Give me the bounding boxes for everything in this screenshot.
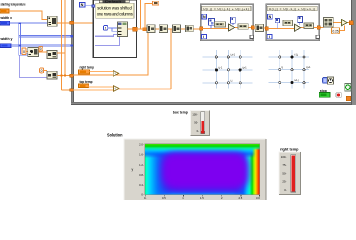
wires inside loop2 bbox=[268, 27, 317, 28]
wire: case node out bbox=[127, 28, 146, 30]
intensity graph panel bbox=[124, 139, 266, 200]
node: index array (loop1) bbox=[209, 19, 215, 26]
wire: right temp to triangle bbox=[90, 71, 114, 73]
svg-text:i,j-1: i,j-1 bbox=[218, 66, 223, 69]
svg-text:N: N bbox=[269, 15, 272, 19]
wire: chain to for loop 1 bbox=[137, 28, 201, 30]
svg-text:i+1,j: i+1,j bbox=[294, 79, 299, 82]
case selector tunnel bbox=[92, 5, 95, 8]
node: Initialize Array 2 (node2) bbox=[47, 51, 57, 59]
constant (loop2) bbox=[275, 18, 279, 22]
control terminal: width y (I32) bbox=[0, 44, 11, 48]
svg-text:3.0: 3.0 bbox=[256, 196, 260, 200]
svg-text:100-: 100- bbox=[281, 155, 287, 159]
node: multiply triangle bbox=[342, 20, 348, 26]
node: add (loop1) bbox=[229, 24, 235, 31]
svg-text:1.2-: 1.2- bbox=[139, 163, 144, 167]
while loop border bbox=[71, 0, 356, 105]
node between loops bbox=[255, 24, 263, 31]
svg-text:0.5: 0.5 bbox=[162, 196, 166, 200]
control terminal: stop (boolean) bbox=[319, 92, 330, 97]
node: time delay (blue icon) bbox=[323, 78, 328, 84]
tunnel: init array out on loop border bbox=[70, 21, 74, 24]
wire: tunnel line under top temp bbox=[73, 89, 113, 91]
svg-text:Default: Default bbox=[105, 0, 121, 4]
for loop 2 bbox=[266, 4, 319, 40]
svg-text:1.5: 1.5 bbox=[200, 196, 204, 200]
wire: N to case selector bbox=[85, 5, 92, 7]
blue wires inside case bbox=[108, 28, 118, 31]
loop condition terminal bbox=[345, 83, 351, 91]
junction: node3 wire bbox=[61, 75, 63, 77]
node: coercion triangle 1 bbox=[113, 71, 119, 77]
svg-text:U(i,j) = U(i-1,j) + U(i+1,j): U(i,j) = U(i-1,j) + U(i+1,j) bbox=[269, 7, 315, 11]
node: index array 2 (loop1) bbox=[231, 17, 236, 23]
control terminal: top temp bbox=[79, 84, 89, 88]
svg-text:0-: 0- bbox=[144, 196, 146, 200]
tunnel: bottom right orange bbox=[346, 96, 351, 101]
svg-text:50-: 50- bbox=[194, 121, 198, 125]
node chain n3 bbox=[173, 25, 181, 33]
svg-text:Solution: Solution bbox=[107, 132, 123, 137]
node: wait ms (clock icon) bbox=[328, 77, 334, 84]
orange wires: left cluster bbox=[26, 0, 93, 90]
svg-text:y: y bbox=[132, 168, 134, 172]
svg-text:right temp: right temp bbox=[80, 65, 95, 70]
node chain n1 bbox=[147, 25, 155, 33]
svg-text:2.5: 2.5 bbox=[239, 196, 243, 200]
svg-text:i,j+1: i,j+1 bbox=[231, 54, 236, 57]
svg-text:i: i bbox=[203, 35, 204, 39]
case structure bbox=[93, 0, 136, 58]
wire: right temp riser bbox=[73, 33, 148, 76]
svg-text:i,j+1: i,j+1 bbox=[242, 66, 247, 69]
constant 0 (c) bbox=[40, 68, 44, 73]
loop count terminal N (outer) bbox=[79, 2, 85, 7]
y axis labels bbox=[139, 142, 144, 196]
node: or / stop glyph bbox=[336, 93, 341, 97]
node: array subset (loop1) bbox=[214, 22, 225, 27]
constant 1 bbox=[104, 26, 108, 31]
wire: top temp run bbox=[119, 88, 171, 90]
svg-text:solution was shifted: solution was shifted bbox=[97, 5, 132, 10]
node chain n4 bbox=[186, 25, 194, 32]
blue wires: width x / width y routing bbox=[10, 23, 72, 55]
node: Replace Array Subset (in case) bbox=[117, 22, 127, 37]
svg-text:i,j+1: i,j+1 bbox=[306, 66, 311, 69]
node: index array A bbox=[28, 47, 39, 56]
svg-text:1: 1 bbox=[105, 26, 107, 30]
svg-text:U(i,j) = U(i,j-1) + U(i,j+1): U(i,j) = U(i,j-1) + U(i,j+1) bbox=[203, 7, 249, 11]
constant 0 (b) bbox=[39, 46, 43, 51]
tunnels loop2 bbox=[265, 27, 268, 30]
svg-text:starting temperature: starting temperature bbox=[1, 2, 26, 7]
svg-text:0-: 0- bbox=[284, 188, 287, 192]
control terminal: starting temperature (DBL) bbox=[0, 9, 9, 13]
wire: lavender into node3 bbox=[20, 55, 47, 77]
tunnel on case right border bbox=[133, 27, 137, 31]
orange verticals into chain bbox=[140, 0, 152, 29]
svg-text:0: 0 bbox=[23, 50, 25, 54]
svg-text:right temp: right temp bbox=[280, 146, 299, 151]
wire: starting temperature to Init1 bbox=[9, 11, 47, 19]
svg-text:one rows and columns: one rows and columns bbox=[97, 12, 133, 17]
junction square at chain bbox=[143, 27, 147, 31]
node: coercion triangle 2 bbox=[113, 86, 119, 92]
node: array subset (loop2) bbox=[283, 20, 293, 25]
svg-text:N: N bbox=[81, 3, 84, 7]
thermometer: box temp bbox=[191, 111, 210, 136]
svg-text:width y: width y bbox=[0, 36, 13, 41]
constant 0 (a) bbox=[22, 48, 26, 55]
comment box: solution was shifted bbox=[96, 3, 134, 18]
svg-text:width x: width x bbox=[0, 15, 13, 20]
control terminal: width x (I32) bbox=[0, 21, 10, 25]
svg-text:i: i bbox=[269, 35, 270, 39]
node: Initialize Array (Init1) bbox=[47, 16, 57, 26]
svg-text:0: 0 bbox=[40, 47, 42, 51]
node chain n2 bbox=[159, 25, 167, 33]
svg-text:i-1,j: i-1,j bbox=[294, 54, 298, 57]
constant at top right of case bbox=[153, 1, 159, 5]
x axis labels bbox=[144, 196, 260, 200]
svg-text:top temp: top temp bbox=[80, 79, 93, 84]
for loop 1 bbox=[201, 4, 254, 40]
wires inside loop1 bbox=[203, 27, 252, 28]
wires after loop2 bbox=[320, 22, 351, 30]
stencil decoration 1 (horizontal pass) bbox=[203, 50, 253, 89]
tunnel: node3 out on loop border bbox=[70, 74, 73, 77]
svg-text:100-: 100- bbox=[192, 112, 197, 116]
svg-text:0.8-: 0.8- bbox=[139, 173, 144, 177]
constant 0.25 bbox=[332, 28, 340, 34]
junction dots on blue wires bbox=[18, 22, 73, 46]
svg-text:0: 0 bbox=[41, 69, 43, 73]
node: index array (loop2) bbox=[298, 16, 303, 22]
svg-text:25-: 25- bbox=[282, 180, 286, 184]
lavender wires inside case bbox=[95, 34, 120, 45]
svg-text:50-: 50- bbox=[282, 171, 286, 175]
svg-text:0-: 0- bbox=[197, 129, 199, 133]
stencil decoration 2 (vertical pass) bbox=[269, 50, 310, 89]
x axis tick marks bbox=[145, 195, 259, 196]
node: add (loop2) bbox=[295, 24, 301, 31]
node: Initialize Array 3 (node3) bbox=[47, 71, 57, 79]
tunnel: output on right border bbox=[349, 21, 353, 25]
svg-text:1.6-: 1.6- bbox=[139, 153, 144, 157]
control terminal: right temp bbox=[79, 70, 90, 74]
svg-text:2.0-: 2.0- bbox=[139, 142, 144, 146]
svg-text:0.25: 0.25 bbox=[333, 29, 339, 33]
node: replace subset (loop2) bbox=[304, 23, 314, 29]
wire: top temp to triangle bbox=[89, 86, 114, 88]
svg-text:0.4-: 0.4- bbox=[139, 183, 144, 187]
node: replace subset (loop1) bbox=[238, 24, 248, 30]
tunnels loop1 bbox=[200, 27, 203, 30]
tunnel: bottom orange wire on loop border bbox=[70, 89, 73, 92]
svg-text:box temp: box temp bbox=[173, 110, 188, 115]
thermometer: right temp bbox=[279, 152, 300, 195]
svg-text:N: N bbox=[203, 15, 206, 19]
node: after loop2 bbox=[324, 18, 334, 27]
svg-text:75-: 75- bbox=[282, 163, 286, 167]
